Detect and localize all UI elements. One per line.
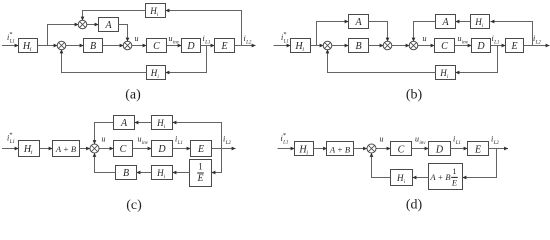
svg-text:u: u bbox=[138, 135, 142, 144]
svg-text:A + B: A + B bbox=[55, 144, 76, 154]
svg-text:u: u bbox=[102, 135, 106, 144]
svg-text:B: B bbox=[90, 41, 96, 52]
svg-text:D: D bbox=[157, 144, 166, 155]
svg-text:A + B: A + B bbox=[329, 144, 350, 154]
svg-text:1: 1 bbox=[453, 167, 457, 176]
svg-text:L1: L1 bbox=[204, 41, 210, 46]
svg-text:*: * bbox=[9, 31, 12, 38]
svg-text:L1: L1 bbox=[282, 141, 288, 146]
svg-text:A: A bbox=[120, 118, 128, 129]
svg-text:u: u bbox=[135, 34, 139, 43]
svg-text:inv: inv bbox=[462, 40, 469, 45]
svg-text:E: E bbox=[197, 174, 204, 184]
svg-text:L2: L2 bbox=[225, 141, 232, 146]
svg-text:(c): (c) bbox=[126, 198, 142, 213]
svg-text:C: C bbox=[441, 41, 448, 52]
svg-text:u: u bbox=[415, 135, 419, 144]
svg-text:inv: inv bbox=[419, 141, 426, 146]
svg-text:u: u bbox=[423, 34, 427, 43]
svg-text:L2: L2 bbox=[493, 141, 500, 146]
svg-text:(a): (a) bbox=[125, 88, 141, 103]
svg-text:L2: L2 bbox=[535, 41, 542, 46]
svg-text:D: D bbox=[186, 41, 195, 52]
svg-text:E: E bbox=[451, 177, 458, 187]
svg-text:D: D bbox=[435, 144, 444, 155]
svg-text:inv: inv bbox=[142, 141, 149, 146]
svg-text:E: E bbox=[220, 41, 227, 52]
svg-text:L1: L1 bbox=[177, 141, 183, 146]
svg-text:B: B bbox=[123, 168, 129, 179]
svg-text:u: u bbox=[169, 34, 173, 43]
svg-text:D: D bbox=[476, 41, 485, 52]
svg-text:C: C bbox=[153, 41, 160, 52]
svg-text:inv: inv bbox=[173, 40, 180, 45]
svg-text:*: * bbox=[9, 132, 12, 139]
svg-text:L2: L2 bbox=[245, 41, 252, 46]
svg-text:L1: L1 bbox=[9, 40, 15, 45]
svg-text:E: E bbox=[474, 144, 481, 155]
svg-text:A: A bbox=[104, 20, 112, 31]
svg-text:C: C bbox=[398, 144, 405, 155]
svg-text:A: A bbox=[441, 17, 449, 28]
svg-text:A + B: A + B bbox=[429, 172, 450, 182]
svg-text:L1: L1 bbox=[455, 141, 461, 146]
svg-text:C: C bbox=[120, 144, 127, 155]
svg-text:L1: L1 bbox=[9, 140, 15, 145]
svg-text:L1: L1 bbox=[493, 41, 499, 46]
svg-text:(d): (d) bbox=[406, 198, 423, 213]
svg-text:u: u bbox=[458, 34, 462, 43]
svg-text:1: 1 bbox=[198, 162, 203, 172]
svg-text:B: B bbox=[355, 41, 361, 52]
svg-text:(b): (b) bbox=[406, 88, 423, 103]
svg-text:*: * bbox=[283, 132, 286, 139]
svg-text:E: E bbox=[510, 41, 517, 52]
svg-text:L1: L1 bbox=[283, 40, 289, 45]
svg-text:E: E bbox=[197, 144, 204, 155]
svg-text:A: A bbox=[354, 17, 362, 28]
svg-text:u: u bbox=[380, 135, 384, 144]
svg-text:*: * bbox=[283, 31, 286, 38]
